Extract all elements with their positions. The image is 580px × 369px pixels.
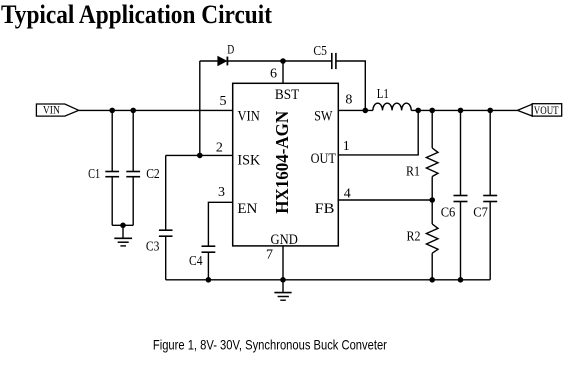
node BST junction [280, 58, 286, 64]
svg-text:HX1604-AGN: HX1604-AGN [272, 111, 292, 214]
diode D [218, 57, 228, 66]
svg-text:FB: FB [315, 201, 335, 217]
capacitor C5 [332, 53, 336, 69]
node R2 on rail [429, 277, 435, 283]
svg-text:2: 2 [216, 141, 223, 156]
node FB junction [429, 197, 435, 203]
svg-text:C5: C5 [313, 44, 327, 59]
svg-text:BST: BST [275, 87, 299, 103]
svg-text:7: 7 [266, 248, 273, 263]
capacitor C6 [454, 110, 468, 279]
svg-text:OUT: OUT [311, 151, 336, 167]
node L1/OUT junction [415, 108, 421, 114]
wire FB pin [338, 199, 432, 201]
op-amp U1 HX1604-AGN IC body [233, 83, 339, 246]
resistor R2 [426, 200, 438, 280]
resistor R1 [426, 110, 438, 200]
inductor L1 [373, 103, 411, 110]
wire VIN rail [79, 109, 233, 111]
capacitor C1 [105, 110, 119, 225]
capacitor C2 [126, 110, 140, 225]
VOUT terminal tag [517, 103, 561, 117]
node C6 tap [458, 108, 464, 114]
wire EN [208, 202, 232, 246]
svg-text:R2: R2 [407, 230, 421, 245]
svg-text:6: 6 [270, 67, 277, 82]
svg-text:C4: C4 [189, 254, 203, 269]
ground under C1C2 [114, 225, 132, 246]
wire OUT pin [338, 110, 418, 154]
node C1C2 join [120, 223, 126, 229]
svg-text:C2: C2 [146, 167, 160, 182]
svg-text:D: D [227, 43, 234, 57]
VIN terminal tag [36, 103, 78, 117]
svg-text:8: 8 [345, 92, 352, 107]
svg-text:SW: SW [314, 109, 333, 125]
wire C5 to SW branch corner [336, 61, 365, 110]
wire top-left vertical from diode branch to ISK [199, 61, 201, 155]
node C6 on rail [458, 277, 464, 283]
wire ISK [166, 154, 233, 156]
svg-text:3: 3 [218, 185, 225, 200]
wire C1-C2 join [112, 224, 133, 226]
wire bottom ground rail [166, 279, 491, 281]
capacitor C4 [202, 246, 216, 280]
wire SW to L1 [338, 109, 373, 111]
svg-text:VIN: VIN [238, 109, 260, 125]
svg-text:C3: C3 [146, 240, 160, 255]
svg-text:Typical Application Circuit: Typical Application Circuit [1, 0, 272, 29]
svg-text:Figure 1, 8V- 30V, Synchronous: Figure 1, 8V- 30V, Synchronous Buck Conv… [153, 336, 387, 352]
wire top left segment [200, 60, 218, 62]
node SW / C5 branch junction [363, 108, 369, 114]
svg-text:VOUT: VOUT [534, 103, 559, 117]
svg-text:EN: EN [237, 201, 257, 217]
node ISK junction [197, 153, 203, 159]
wire diode to C5 [227, 60, 331, 62]
node C1 tap [109, 108, 115, 114]
svg-text:1: 1 [343, 139, 350, 154]
svg-text:R1: R1 [406, 164, 420, 179]
svg-text:C7: C7 [473, 206, 488, 221]
node GND rail junction [280, 277, 286, 283]
svg-text:C1: C1 [88, 167, 100, 182]
capacitor C7 [483, 110, 497, 279]
svg-text:VIN: VIN [43, 103, 60, 117]
svg-text:ISK: ISK [237, 153, 260, 169]
wire pin6 stub [282, 61, 284, 83]
node C4 on rail [206, 277, 212, 283]
wire L1 to VOUT [411, 109, 517, 111]
svg-text:L1: L1 [377, 87, 389, 102]
node R1 tap [429, 108, 435, 114]
node C2 tap [130, 108, 136, 114]
capacitor C3 [159, 155, 173, 279]
svg-text:C6: C6 [441, 206, 456, 221]
ground under pin7 [274, 280, 291, 300]
svg-text:5: 5 [220, 94, 227, 109]
wire pin7 stub [282, 246, 284, 280]
node C7 tap [487, 108, 493, 114]
svg-text:GND: GND [271, 232, 298, 248]
